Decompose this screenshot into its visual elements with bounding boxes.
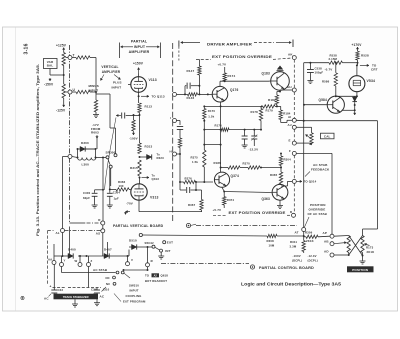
- node V: [126, 262, 130, 266]
- svg-text:POSITION: POSITION: [310, 203, 326, 207]
- svg-text:AK: AK: [288, 53, 293, 57]
- svg-text:OVERRIDE: OVERRIDE: [309, 208, 326, 212]
- wire O to readout: [147, 267, 149, 270]
- wire AL down: [62, 233, 64, 257]
- switch SW510 lever: [155, 247, 160, 250]
- svg-text:2.15M: 2.15M: [329, 57, 338, 61]
- svg-text:R315: R315: [130, 166, 138, 170]
- node W: [78, 263, 82, 267]
- svg-text:2K1K: 2K1K: [367, 250, 375, 254]
- cap bypass 1: [244, 129, 246, 131]
- cal pot wires: [296, 126, 311, 128]
- supply rail y62: [304, 62, 329, 64]
- svg-text:Q584: Q584: [319, 98, 327, 102]
- wire R176 right: [229, 129, 261, 131]
- wire R586 to Q584: [335, 86, 337, 96]
- ground grid leak: [95, 112, 97, 115]
- ext position override bottom dashes: [213, 214, 227, 216]
- pointer feedback: [305, 172, 310, 177]
- node AA: [52, 261, 56, 265]
- wire I to cap: [177, 120, 181, 122]
- junction var bal: [63, 74, 65, 76]
- cross wire 2: [349, 236, 363, 256]
- svg-text:BAL: BAL: [47, 64, 54, 68]
- svg-text:W: W: [75, 259, 78, 263]
- dashed border AL vertical: [47, 231, 49, 285]
- wire D510 riser: [128, 250, 130, 257]
- svg-text:CRT: CRT: [371, 67, 378, 71]
- junction R174 collector: [224, 80, 226, 82]
- node U: [68, 90, 72, 94]
- resistor from T: [72, 57, 76, 59]
- cap C300: [92, 192, 98, 194]
- arrow J310: [102, 287, 107, 292]
- contact EXT: [163, 241, 166, 244]
- wire R309 to AP: [318, 235, 330, 238]
- node AS border: [101, 229, 105, 233]
- resistor R146: [188, 93, 198, 96]
- junction D300 left: [77, 148, 79, 150]
- wire AT rail: [139, 233, 142, 236]
- resistor R186: [228, 166, 240, 169]
- VAR BAL box: [44, 59, 58, 69]
- svg-text:C304: C304: [113, 191, 121, 195]
- junction C538: [309, 62, 311, 64]
- svg-text:AB: AB: [324, 240, 329, 244]
- svg-text:AD: AD: [324, 250, 329, 254]
- svg-text:INPUT: INPUT: [112, 85, 122, 89]
- svg-text:82pF: 82pF: [83, 196, 90, 200]
- node D: [292, 213, 296, 217]
- transistor Q584: [327, 96, 344, 113]
- svg-text:R313: R313: [145, 145, 153, 149]
- resistor R182: [277, 91, 280, 93]
- node Y: [60, 263, 64, 267]
- node F: [292, 151, 296, 155]
- junction minus input: [95, 91, 97, 93]
- svg-text:3-16: 3-16: [24, 43, 30, 54]
- svg-text:-0.7V: -0.7V: [325, 68, 333, 72]
- node AD: [330, 253, 334, 257]
- wire cap to resistor: [179, 130, 181, 139]
- svg-text:D300: D300: [81, 141, 89, 145]
- svg-text:INT: INT: [165, 249, 170, 253]
- svg-text:-100V: -100V: [129, 137, 138, 141]
- svg-text:R586: R586: [322, 80, 330, 84]
- svg-text:R186: R186: [214, 161, 222, 165]
- wire R311 down: [303, 252, 305, 254]
- resistor R586: [335, 63, 337, 66]
- dashed border AL horizontal: [48, 230, 54, 232]
- cap C300 branch: [95, 189, 103, 191]
- cap mid: [177, 126, 183, 128]
- wire var bal to divider: [49, 69, 51, 76]
- svg-text:V313: V313: [150, 196, 159, 200]
- svg-text:V534: V534: [367, 79, 376, 83]
- wire R528 junction: [357, 60, 359, 63]
- wire V300 to AL: [63, 156, 69, 158]
- wire H junction: [177, 153, 181, 155]
- node O: [146, 263, 150, 267]
- wire to -125V: [63, 98, 65, 104]
- svg-text:AMPLIFIER: AMPLIFIER: [102, 70, 121, 74]
- svg-text:AC: AC: [100, 295, 105, 299]
- emitter chain Q176-Q374: [220, 102, 222, 172]
- node E: [292, 141, 296, 145]
- cal wiper: [306, 135, 312, 140]
- resistor R365: [280, 168, 282, 173]
- registration mark: [21, 296, 24, 299]
- resistor R176: [221, 128, 229, 131]
- svg-text:V: V: [131, 258, 133, 262]
- supply bar Q183: [279, 71, 281, 72]
- svg-text:V113: V113: [149, 78, 157, 82]
- svg-text:-12.2V: -12.2V: [249, 148, 259, 152]
- svg-text:R179: R179: [266, 109, 274, 113]
- junction to Q313: [139, 177, 141, 179]
- wire Q176 to Q183 base: [219, 81, 221, 86]
- wire Z to C24: [88, 267, 90, 288]
- svg-text:-100V: -100V: [293, 254, 301, 258]
- wire AP to pot: [334, 235, 349, 238]
- svg-text:PARTIAL CONTROL BOARD: PARTIAL CONTROL BOARD: [259, 266, 314, 270]
- collector diode rail: [336, 95, 357, 97]
- svg-text:AT: AT: [295, 230, 299, 234]
- svg-text:+0.7V: +0.7V: [218, 63, 227, 67]
- wire to V313 plate: [139, 178, 141, 185]
- resistor R178: [259, 109, 262, 121]
- left page crease: [15, 28, 17, 311]
- svg-text:3.3M: 3.3M: [290, 245, 297, 249]
- arrow TO Q113: [141, 95, 149, 97]
- svg-text:(DCPL): (DCPL): [292, 258, 302, 262]
- label CAL box: [321, 133, 335, 139]
- node NC 2: [113, 282, 116, 285]
- svg-text:R309: R309: [305, 230, 313, 234]
- node I: [173, 119, 177, 123]
- svg-text:R304: R304: [284, 158, 292, 162]
- wire -17V down: [96, 135, 98, 139]
- junction R370 right: [260, 167, 262, 169]
- arrow TO CRT: [360, 64, 369, 66]
- node on divider for input: [173, 92, 177, 96]
- input coupling curve: [105, 118, 117, 191]
- svg-text:-125V: -125V: [56, 109, 66, 113]
- wire R to AS: [102, 225, 104, 229]
- wire right pot top: [363, 228, 378, 230]
- wire R184 to AI: [281, 122, 287, 124]
- cap C304: [107, 192, 113, 194]
- svg-text:AP: AP: [323, 231, 327, 235]
- acstab box wire: [296, 152, 332, 154]
- wire cap rail right: [196, 189, 202, 191]
- svg-text:TO Q514: TO Q514: [304, 180, 317, 184]
- vertical board left dash-dot border: [69, 45, 71, 223]
- svg-text:F: F: [289, 149, 291, 153]
- node R border: [101, 221, 105, 225]
- svg-text:Q176: Q176: [230, 88, 238, 92]
- svg-text:AJ: AJ: [288, 123, 292, 127]
- svg-text:R178: R178: [251, 110, 259, 114]
- ground SW510: [160, 252, 162, 253]
- svg-text:AL: AL: [56, 231, 60, 235]
- svg-text:TO: TO: [145, 274, 150, 278]
- ground position pot: [362, 256, 364, 259]
- cap R376 parallel: [179, 182, 181, 190]
- resistor R538: [329, 61, 342, 64]
- switch SW510 common: [152, 245, 155, 248]
- feedback vertical: [303, 63, 305, 228]
- resistor R367: [201, 190, 203, 200]
- svg-text:R182: R182: [268, 98, 276, 102]
- svg-text:EXT POSITION OVERRIDE: EXT POSITION OVERRIDE: [212, 55, 273, 59]
- arrow To Q313: [142, 177, 150, 179]
- resistor R184: [280, 106, 282, 110]
- wire bus riser Y: [61, 256, 63, 263]
- control board symbol: [250, 265, 254, 269]
- header PARTIAL INPUT AMPLIFIER bars: [119, 43, 121, 59]
- resistor R174: [224, 67, 226, 73]
- svg-text:R174: R174: [228, 74, 236, 78]
- rail R176: [204, 129, 220, 131]
- svg-text:TRACE STABILIZER: TRACE STABILIZER: [63, 295, 89, 299]
- svg-text:DRIVER AMPLIFIER: DRIVER AMPLIFIER: [207, 42, 252, 46]
- resistor grid leak: [95, 94, 97, 100]
- svg-text:R374: R374: [227, 198, 235, 202]
- bus diode row: [54, 255, 68, 257]
- board symbol circle-arrow: [186, 223, 190, 227]
- control board dash-dot line: [161, 263, 249, 265]
- wire tube bottom: [356, 92, 358, 97]
- svg-text:Fig. 3-13. Position control a: Fig. 3-13. Position control and AC—TRACE…: [36, 64, 40, 236]
- junction cap rail: [139, 114, 141, 116]
- resistor R309: [304, 236, 306, 238]
- wire minus input to SW300: [109, 94, 111, 128]
- svg-text:(DCPL): (DCPL): [308, 258, 318, 262]
- svg-text:+: +: [50, 285, 52, 289]
- transistor Q374: [214, 172, 229, 187]
- wire R376 to base: [196, 181, 214, 183]
- header INPUT arrows: [121, 46, 134, 48]
- pointer EXT PROGRAM: [114, 294, 121, 302]
- resistor R528: [357, 50, 359, 52]
- svg-text:1.5k: 1.5k: [208, 115, 214, 119]
- svg-text:T: T: [73, 54, 75, 58]
- svg-text:+150V: +150V: [133, 62, 144, 66]
- svg-text:COUPLING: COUPLING: [126, 294, 142, 298]
- svg-text:AC STAB: AC STAB: [93, 268, 108, 272]
- node T: [68, 56, 72, 60]
- TRACE STABILIZER box: [54, 294, 99, 300]
- node V300 on border: [68, 155, 72, 159]
- svg-text:100µF: 100µF: [315, 70, 324, 74]
- ground trace stab 2: [96, 298, 98, 301]
- node AP: [330, 234, 334, 238]
- bus riser 107: [107, 242, 109, 256]
- transistor Q363: [272, 184, 288, 200]
- wire input rail: [177, 93, 188, 95]
- diode D510: [129, 246, 132, 248]
- rail R376: [180, 181, 184, 183]
- svg-text:D407: D407: [104, 248, 112, 252]
- resistor R313: [138, 143, 141, 154]
- cap C146: [185, 85, 186, 87]
- svg-text:SR300: SR300: [106, 151, 116, 155]
- wire L300 frame: [77, 149, 79, 158]
- vertical board bottom dash-dot right part: [196, 225, 297, 227]
- svg-text:E: E: [289, 139, 291, 143]
- resistor R375: [203, 145, 205, 150]
- diode to R323: [140, 156, 147, 158]
- svg-text:C300: C300: [83, 191, 91, 195]
- svg-text:R176: R176: [215, 123, 223, 127]
- wire O riser: [147, 247, 149, 263]
- wire right wiper: [364, 244, 369, 246]
- junction bus1: [79, 255, 81, 257]
- V534 plates: [353, 79, 360, 81]
- dash AL to AS: [65, 230, 101, 232]
- svg-text:1.5k: 1.5k: [192, 160, 198, 164]
- tube V313: [131, 184, 147, 200]
- svg-text:D400: D400: [68, 248, 76, 252]
- contact SW300 minus: [114, 154, 117, 157]
- svg-text:Q183: Q183: [262, 72, 270, 76]
- svg-text:AC STAB: AC STAB: [313, 163, 328, 167]
- cap C23: [53, 288, 55, 291]
- arrow +150V: [138, 68, 140, 74]
- wire bus riser W: [79, 256, 81, 263]
- transistor Q176: [212, 86, 228, 102]
- svg-text:AMPLIFIER: AMPLIFIER: [129, 50, 150, 54]
- contact INT: [160, 249, 163, 252]
- grid wire V113: [128, 84, 131, 86]
- svg-text:MINUS: MINUS: [89, 84, 99, 88]
- resistor R308: [267, 234, 277, 237]
- cap C538: [309, 63, 311, 69]
- svg-text:+5.7V: +5.7V: [213, 208, 222, 212]
- wire Q584 base: [304, 104, 327, 106]
- wire minus input to grid: [95, 92, 97, 94]
- junction pot bottoms: [348, 254, 350, 256]
- wire bus riser AA: [53, 256, 55, 261]
- wire Q183 emitter: [279, 90, 281, 91]
- svg-text:PARTIAL VERTICAL BOARD: PARTIAL VERTICAL BOARD: [113, 224, 164, 228]
- wire col A down: [102, 158, 104, 222]
- node Z: [87, 263, 91, 267]
- svg-text:AS: AS: [96, 231, 100, 235]
- wire to AH: [280, 89, 292, 91]
- wire R to junction: [63, 66, 65, 85]
- wire -100V stub: [133, 115, 135, 120]
- svg-text:-150V: -150V: [44, 83, 54, 87]
- resistor R376: [184, 180, 196, 183]
- svg-text:AA: AA: [48, 258, 52, 262]
- wire AC STAB: [61, 267, 63, 273]
- ground Q363: [279, 200, 281, 203]
- wire to Q514 node: [281, 185, 288, 187]
- svg-text:R147: R147: [187, 69, 195, 73]
- arrow down cathode: [126, 211, 131, 213]
- svg-text:I: I: [170, 116, 171, 120]
- cal pot: [310, 133, 313, 145]
- resistor R311: [303, 236, 305, 241]
- wire Q374 to Q363: [224, 192, 272, 193]
- position pot right: [361, 236, 364, 253]
- node H: [173, 152, 177, 156]
- junction AI feedback: [303, 120, 305, 122]
- resistor R304: [280, 154, 282, 157]
- wire cathode V113: [138, 92, 140, 103]
- svg-text:INPUT: INPUT: [89, 88, 99, 92]
- node AL: [61, 229, 65, 233]
- wire +125V to R: [63, 51, 65, 53]
- dashed cap row left: [53, 287, 67, 289]
- dashed cap row right: [68, 287, 101, 289]
- svg-text:R146: R146: [187, 96, 195, 100]
- svg-text:SW412: SW412: [145, 241, 155, 245]
- junction cathode V113: [138, 95, 140, 97]
- arrow down below diode: [354, 110, 356, 115]
- header DRIVER AMPLIFIER dashes: [181, 42, 200, 44]
- resistor R374: [223, 192, 225, 197]
- svg-text:R311: R311: [290, 240, 297, 244]
- junction D300 right: [95, 148, 97, 150]
- pointer lines vertical amplifier: [101, 75, 105, 81]
- wire minus input corner: [95, 58, 97, 95]
- input/driver dashed divider: [172, 43, 174, 222]
- resistor R370: [240, 167, 248, 169]
- svg-text:Q313: Q313: [152, 177, 160, 181]
- svg-text:Logic and Circuit Description—: Logic and Circuit Description—Type 3A5: [241, 282, 342, 287]
- ground trace stab 1: [74, 299, 76, 301]
- svg-text:2K1K: 2K1K: [306, 239, 314, 243]
- dashed node column: [293, 60, 295, 88]
- switch SR300: [106, 156, 109, 159]
- node AK: [292, 56, 296, 60]
- svg-text:AI: AI: [288, 115, 291, 119]
- svg-text:R367: R367: [188, 203, 196, 207]
- svg-text:INPUT: INPUT: [130, 289, 139, 293]
- tube V534: [349, 76, 365, 92]
- ext position override top dashes: [196, 58, 211, 60]
- wire AD to pot bottom: [334, 254, 349, 256]
- long wire right: [304, 120, 378, 122]
- wire AA to C23: [53, 265, 55, 288]
- pointer position override: [305, 217, 310, 227]
- svg-text:C23: C23: [58, 288, 64, 292]
- svg-text:+125V: +125V: [56, 44, 67, 48]
- wire AI to feedback: [296, 119, 303, 121]
- vertical board bottom dash-dot left part: [70, 222, 86, 224]
- svg-text:BOT READOUT: BOT READOUT: [145, 279, 167, 283]
- svg-text:SW310: SW310: [129, 284, 139, 288]
- node NC 1: [113, 276, 116, 279]
- svg-text:10M: 10M: [269, 244, 275, 248]
- svg-text:INPUT: INPUT: [134, 45, 146, 49]
- svg-text:PARTIAL: PARTIAL: [131, 39, 148, 43]
- wire V node riser: [127, 256, 129, 262]
- wire D510 to switch: [137, 246, 152, 248]
- svg-text:CAL: CAL: [324, 135, 331, 139]
- svg-text:FEEDBACK: FEEDBACK: [311, 168, 330, 172]
- node TO Q514: [292, 179, 296, 183]
- svg-text:D510: D510: [129, 239, 137, 243]
- svg-text:AC: AC: [44, 297, 49, 301]
- cathode wire V313: [138, 200, 140, 211]
- svg-text:-70V: -70V: [126, 202, 133, 206]
- inductor L300: [78, 158, 96, 161]
- grid resistor R366: [110, 188, 116, 190]
